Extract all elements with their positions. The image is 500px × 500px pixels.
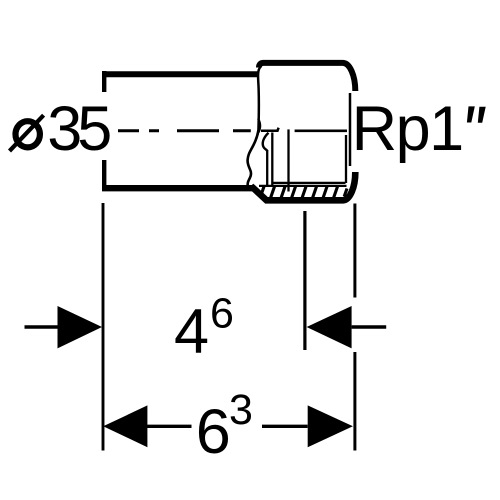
extension line left — [102, 203, 105, 451]
label diameter: slash of o-slash — [10, 115, 44, 151]
dim 63 left arrow — [103, 405, 147, 447]
thread hatching — [260, 187, 347, 198]
pipe top edge — [102, 71, 258, 77]
extension line mid — [303, 211, 306, 350]
break line lens detail — [258, 119, 260, 133]
socket left face line — [258, 67, 260, 131]
section boundary line right — [295, 129, 347, 132]
inner shoulder vertical left — [266, 150, 268, 186]
extension line right upper — [353, 204, 356, 298]
thread start vertical — [287, 129, 289, 191]
right end face line — [349, 93, 352, 166]
quote mark 2 — [478, 107, 486, 123]
label diameter: circle of o-slash — [16, 121, 40, 147]
pipe left end tick bottom — [102, 160, 106, 191]
inner shoulder neck curve — [263, 133, 269, 151]
dim 46 left tail — [25, 325, 59, 328]
dim 63 right tail — [262, 425, 308, 428]
break line wavy — [248, 131, 259, 188]
socket top edge — [259, 63, 355, 91]
pipe bottom edge — [102, 185, 253, 191]
svg-text:3: 3 — [229, 386, 253, 434]
centerline — [118, 129, 251, 132]
dim 63 left tail — [147, 425, 192, 428]
inner shoulder vertical right — [271, 133, 273, 186]
socket bottom edge — [251, 172, 355, 200]
svg-text:6: 6 — [196, 397, 231, 467]
dim 46 left arrow — [58, 306, 103, 348]
dim 63 right arrow — [308, 405, 353, 447]
bore line upper — [273, 182, 346, 184]
dim 46 right tail — [352, 325, 387, 328]
section step at centerline — [261, 128, 279, 131]
pipe left end tick top — [102, 71, 106, 92]
quote mark 1 — [467, 106, 475, 122]
svg-text:35: 35 — [47, 94, 110, 164]
svg-text:4: 4 — [174, 297, 209, 367]
thread crest line — [259, 185, 347, 187]
thread chamfer line — [345, 135, 347, 183]
dim 46 right arrow — [307, 306, 352, 348]
svg-text:Rp1: Rp1 — [352, 94, 463, 164]
svg-text:6: 6 — [210, 289, 234, 337]
extension line right lower — [353, 352, 356, 451]
